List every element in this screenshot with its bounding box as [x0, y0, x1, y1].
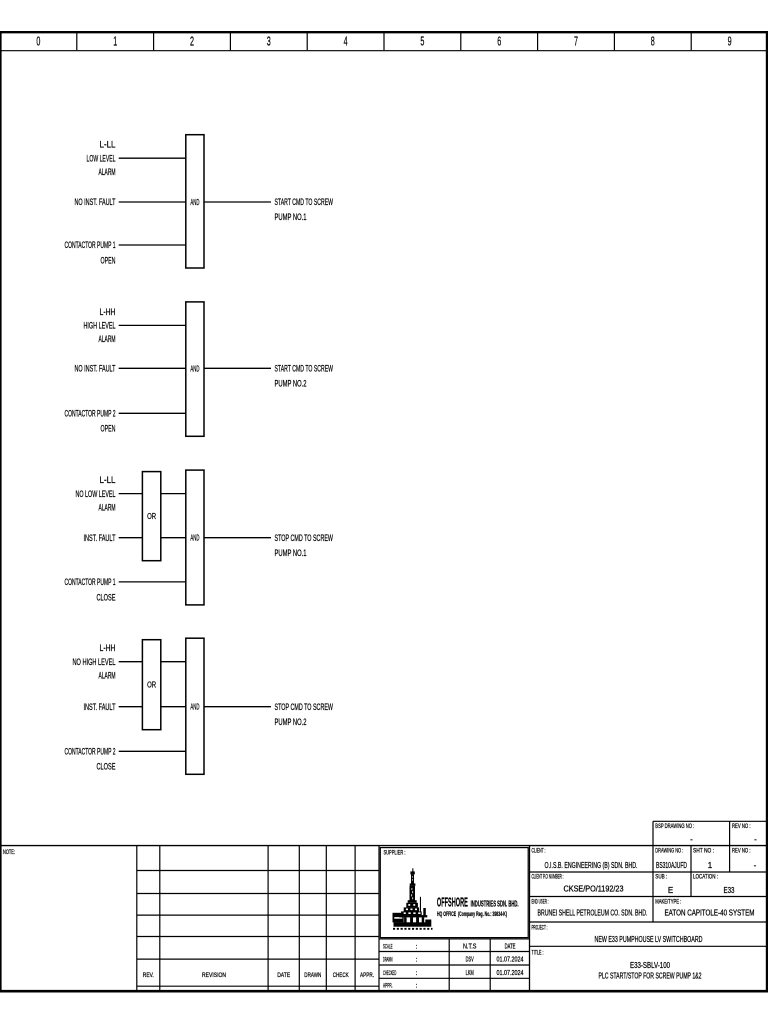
- svg-text:NOTE:: NOTE:: [3, 849, 15, 856]
- supplier cell divider: [529, 846, 531, 991]
- column ruler divider 1: [76, 33, 78, 50]
- output label block 4: [275, 702, 334, 728]
- input1 label block 2: [84, 307, 116, 345]
- AND gate block 3: [186, 470, 204, 605]
- client po number cell: [532, 874, 624, 894]
- output label block 3: [275, 533, 334, 559]
- sheet left border: [0, 31, 2, 992]
- wire input1 block 2: [119, 324, 186, 326]
- svg-text:LOW LEVEL: LOW LEVEL: [87, 153, 116, 164]
- wire input3 block 2: [119, 412, 186, 414]
- svg-text::: :: [416, 983, 418, 990]
- sheet right border: [766, 31, 768, 992]
- scale table text: [383, 942, 524, 990]
- column ruler divider 7: [537, 33, 539, 50]
- drawing no cell: [655, 848, 687, 870]
- svg-text:EATON CAPITOLE-40 SYSTEM: EATON CAPITOLE-40 SYSTEM: [665, 909, 755, 918]
- svg-text:CHECKED: CHECKED: [383, 970, 396, 977]
- column ruler divider 9: [690, 33, 692, 50]
- svg-text:BSP DRAWING NO :: BSP DRAWING NO :: [655, 823, 694, 830]
- svg-text::: :: [416, 944, 418, 951]
- svg-text:SUPPLIER :: SUPPLIER :: [384, 850, 406, 857]
- svg-text:AND: AND: [190, 702, 199, 712]
- svg-text:REV NO :: REV NO :: [732, 823, 751, 830]
- svg-text:NO INST. FAULT: NO INST. FAULT: [75, 364, 116, 375]
- title block top line: [0, 845, 768, 847]
- wire input1 to OR block 3: [119, 493, 143, 495]
- svg-text:APPR.: APPR.: [383, 983, 393, 990]
- input1 label block 1: [87, 140, 116, 178]
- svg-text:OPEN: OPEN: [101, 255, 116, 266]
- location cell: [693, 874, 735, 895]
- wire input1 to OR block 4: [119, 661, 143, 663]
- svg-text:OR: OR: [147, 680, 156, 690]
- svg-text:O.I.S.B. ENGINEERING (B) SDN.: O.I.S.B. ENGINEERING (B) SDN. BHD.: [545, 861, 638, 870]
- output wire block 1: [204, 201, 271, 203]
- svg-text:1: 1: [113, 33, 117, 48]
- svg-text:APPR.: APPR.: [360, 972, 374, 979]
- svg-text:9: 9: [728, 33, 732, 48]
- svg-text:0: 0: [36, 33, 40, 48]
- column ruler divider 6: [460, 33, 462, 50]
- svg-text:PUMP NO.2: PUMP NO.2: [275, 379, 307, 390]
- rev no top cell: [732, 823, 757, 844]
- svg-text:CKSE/PO/1192/23: CKSE/PO/1192/23: [564, 885, 624, 894]
- svg-text:OFFSHORE: OFFSHORE: [437, 895, 468, 909]
- svg-text:PROJECT :: PROJECT :: [532, 925, 548, 932]
- revision table: [137, 846, 379, 991]
- input3 label block 2: [65, 409, 116, 435]
- sheet top border line: [0, 31, 768, 33]
- svg-text:CLIENT :: CLIENT :: [532, 848, 546, 855]
- AND gate block 2: [186, 302, 204, 436]
- svg-text:SCALE: SCALE: [383, 944, 393, 951]
- svg-text:2: 2: [190, 33, 194, 48]
- output label block 1: [275, 197, 334, 223]
- supplier logo inner border: [380, 848, 528, 938]
- svg-text:TITLE :: TITLE :: [532, 950, 544, 957]
- svg-text:OPEN: OPEN: [101, 424, 116, 435]
- column ruler divider 8: [613, 33, 615, 50]
- svg-text:CLOSE: CLOSE: [97, 762, 116, 773]
- column ruler divider 5: [383, 33, 385, 50]
- svg-text:START CMD TO SCREW: START CMD TO SCREW: [275, 364, 334, 375]
- svg-text:BRUNEI SHELL PETROLEUM CO. SDN: BRUNEI SHELL PETROLEUM CO. SDN. BHD.: [538, 909, 648, 918]
- svg-text:ALARM: ALARM: [99, 671, 116, 682]
- svg-text:5: 5: [420, 33, 424, 48]
- column ruler divider 3: [229, 33, 231, 50]
- svg-text:SUB :: SUB :: [655, 874, 667, 881]
- svg-text:ALARM: ALARM: [99, 334, 116, 345]
- scale table: [379, 939, 530, 991]
- svg-text:STOP CMD TO SCREW: STOP CMD TO SCREW: [275, 702, 334, 713]
- svg-text:CONTACTOR PUMP 1: CONTACTOR PUMP 1: [65, 577, 116, 588]
- rev no cell: [732, 848, 757, 870]
- svg-text:SHT NO :: SHT NO :: [693, 848, 714, 855]
- column ruler divider 4: [306, 33, 308, 50]
- svg-text:INST. FAULT: INST. FAULT: [84, 533, 116, 544]
- output wire block 2: [204, 367, 271, 369]
- svg-text:-: -: [754, 835, 757, 844]
- offshore rig logo: [393, 868, 433, 929]
- wire input2 block 2: [119, 367, 186, 369]
- svg-text:LOCATION :: LOCATION :: [693, 874, 718, 881]
- AND gate block 4: [186, 638, 204, 774]
- svg-text:L-HH: L-HH: [100, 643, 116, 654]
- svg-text:L-HH: L-HH: [100, 307, 116, 318]
- svg-text:REV NO :: REV NO :: [732, 848, 751, 855]
- svg-text:LKM: LKM: [466, 968, 474, 977]
- svg-text:NO LOW LEVEL: NO LOW LEVEL: [76, 489, 116, 500]
- svg-text:PUMP NO.1: PUMP NO.1: [275, 212, 307, 223]
- input3 label block 4: [65, 747, 116, 773]
- OR gate block 3: [142, 472, 160, 561]
- wire input2 to OR block 4: [119, 706, 143, 708]
- output label block 2: [275, 364, 334, 390]
- svg-text:ALARM: ALARM: [99, 167, 116, 178]
- svg-text:1: 1: [708, 861, 713, 870]
- wire input2 to OR block 3: [119, 537, 143, 539]
- svg-text:CONTACTOR PUMP 1: CONTACTOR PUMP 1: [65, 240, 116, 251]
- bsp drawing no cell: [655, 823, 694, 844]
- svg-text:HIGH LEVEL: HIGH LEVEL: [84, 321, 116, 332]
- svg-text:START CMD TO SCREW: START CMD TO SCREW: [275, 197, 334, 208]
- wire input3 block 3: [119, 581, 186, 583]
- AND gate block 1: [186, 135, 204, 268]
- svg-text:6: 6: [497, 33, 501, 48]
- svg-text:L-LL: L-LL: [100, 475, 116, 486]
- svg-text:HQ OFFICE (Company Reg. No.:: HQ OFFICE (Company Reg. No.: 39834-K): [437, 911, 507, 918]
- svg-text:DRAWN: DRAWN: [304, 972, 321, 979]
- output wire block 3: [204, 537, 271, 539]
- svg-text:L-LL: L-LL: [100, 140, 116, 151]
- svg-text:-: -: [690, 835, 693, 844]
- svg-text:8: 8: [651, 33, 655, 48]
- svg-text:PLC START/STOP FOR SCREW PUMP: PLC START/STOP FOR SCREW PUMP 1&2: [599, 972, 702, 981]
- wire input1 block 1: [119, 157, 186, 159]
- wire input3 block 4: [119, 750, 186, 752]
- sheet bottom border line: [0, 990, 768, 993]
- input3 label block 3: [65, 577, 116, 603]
- wire OR to AND lower block 4: [161, 706, 186, 708]
- make type cell: [655, 899, 754, 918]
- OR gate block 4: [142, 640, 160, 730]
- input3 label block 1: [65, 240, 116, 266]
- right info block grid: [530, 821, 768, 946]
- svg-text:NO HIGH LEVEL: NO HIGH LEVEL: [73, 657, 116, 668]
- svg-text:3: 3: [267, 33, 271, 48]
- svg-text:REV.: REV.: [143, 972, 154, 979]
- svg-text:STOP CMD TO SCREW: STOP CMD TO SCREW: [275, 533, 334, 544]
- end user cell: [532, 899, 648, 918]
- project cell: [532, 925, 703, 944]
- svg-text:N.T.S: N.T.S: [463, 942, 477, 951]
- svg-text:DSV: DSV: [466, 955, 474, 964]
- svg-text:PUMP NO.1: PUMP NO.1: [275, 548, 307, 559]
- client cell: [532, 848, 638, 870]
- svg-text:AND: AND: [190, 197, 199, 207]
- svg-text:E: E: [668, 886, 673, 895]
- svg-text:01.07.2024: 01.07.2024: [497, 968, 524, 977]
- svg-text:CLIENT P.O NUMBER :: CLIENT P.O NUMBER :: [532, 874, 564, 881]
- svg-text:CLOSE: CLOSE: [97, 592, 116, 603]
- svg-text:OR: OR: [147, 511, 156, 521]
- sht no cell: [693, 848, 714, 870]
- column ruler divider 2: [153, 33, 155, 50]
- svg-text::: :: [416, 970, 418, 977]
- wire OR to AND upper block 4: [161, 661, 186, 663]
- svg-text:END USER :: END USER :: [532, 899, 549, 906]
- svg-text:PUMP NO.2: PUMP NO.2: [275, 717, 307, 728]
- svg-text:REVISION: REVISION: [202, 972, 226, 979]
- output wire block 4: [204, 706, 271, 708]
- input1 label block 4: [73, 643, 116, 681]
- svg-text::: :: [416, 957, 418, 964]
- svg-text:BS310AJUFD: BS310AJUFD: [656, 861, 687, 870]
- title cell: [532, 950, 702, 981]
- svg-text:NEW E33 PUMPHOUSE LV SWITCHBOA: NEW E33 PUMPHOUSE LV SWITCHBOARD: [595, 935, 703, 944]
- svg-text:E33: E33: [724, 886, 735, 895]
- sub cell: [655, 874, 673, 895]
- svg-text:NO INST. FAULT: NO INST. FAULT: [75, 197, 116, 208]
- svg-text:CHECK: CHECK: [333, 972, 349, 979]
- input1 label block 3: [76, 475, 116, 513]
- svg-text:4: 4: [344, 33, 348, 48]
- svg-text:01.07.2024: 01.07.2024: [497, 955, 524, 964]
- svg-text:-: -: [754, 861, 757, 870]
- svg-text:MAKE/TYPE :: MAKE/TYPE :: [655, 899, 681, 906]
- svg-text:INST. FAULT: INST. FAULT: [84, 702, 116, 713]
- wire input2 block 1: [119, 201, 186, 203]
- svg-text:DRAWN: DRAWN: [383, 957, 393, 964]
- svg-text:7: 7: [574, 33, 578, 48]
- revision table header labels: [143, 972, 374, 979]
- svg-text:DATE: DATE: [277, 972, 290, 979]
- wire OR to AND upper block 3: [161, 493, 186, 495]
- svg-text:DRAWING NO :: DRAWING NO :: [655, 848, 683, 855]
- svg-text:DATE: DATE: [505, 942, 516, 951]
- svg-text:CONTACTOR PUMP 2: CONTACTOR PUMP 2: [65, 747, 116, 758]
- offshore logo text: [437, 895, 519, 918]
- svg-text:AND: AND: [190, 533, 199, 543]
- column ruler bottom line: [0, 50, 768, 52]
- svg-text:CONTACTOR PUMP 2: CONTACTOR PUMP 2: [65, 409, 116, 420]
- svg-text:ALARM: ALARM: [99, 502, 116, 513]
- wire OR to AND lower block 3: [161, 537, 186, 539]
- svg-text:INDUSTRIES SDN. BHD.: INDUSTRIES SDN. BHD.: [471, 898, 519, 908]
- svg-text:E33-SBLV-100: E33-SBLV-100: [630, 961, 670, 970]
- wire input3 block 1: [119, 244, 186, 246]
- svg-text:AND: AND: [190, 363, 199, 373]
